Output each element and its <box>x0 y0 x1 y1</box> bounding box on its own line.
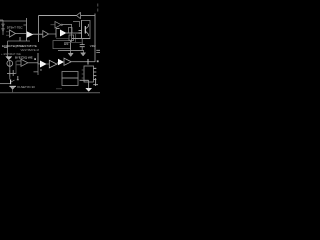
component bracket <box>56 29 60 38</box>
faint line y=42.5 <box>64 42 82 44</box>
box X1 <box>81 20 83 39</box>
pin dashes <box>79 31 82 34</box>
faint line y=38.7 <box>56 38 69 40</box>
resistor R1 <box>69 28 73 34</box>
ground G2 <box>86 88 92 91</box>
transformer T1 <box>62 72 78 79</box>
svg-text:VESTIBATE·M: VESTIBATE·M <box>21 48 40 52</box>
wire U2 out <box>33 33 43 35</box>
wire mid <box>66 32 82 34</box>
vertical x=38 <box>37 53 39 64</box>
resistor R2 <box>69 35 74 41</box>
capacitor C2 right edge <box>96 50 100 52</box>
IC box U6 <box>84 66 94 82</box>
svg-text:DTB+T·TEC: DTB+T·TEC <box>7 26 24 30</box>
oscillator circle <box>7 61 13 67</box>
junction cross <box>87 59 89 65</box>
ground G4 <box>83 51 85 53</box>
svg-text:BYEZ2IQ·WE: BYEZ2IQ·WE <box>15 56 33 60</box>
vertical x=75.5 <box>75 34 77 42</box>
diode pair D1 on left vertical <box>2 20 4 35</box>
corner wire <box>73 22 80 28</box>
mid bus <box>58 50 84 52</box>
svg-text:VR2: VR2 <box>90 44 96 48</box>
inverter U3 <box>55 22 61 29</box>
wire U1 out <box>16 33 28 35</box>
bottom bus <box>0 92 100 94</box>
faint top right marks <box>97 4 99 12</box>
wire right lower <box>95 78 97 86</box>
U5 block <box>53 41 71 49</box>
wire x=16 <box>15 61 17 74</box>
pins <box>94 68 97 79</box>
dot right <box>97 60 99 62</box>
diode to ground <box>9 85 16 87</box>
wire under U1 <box>8 40 31 42</box>
connector arrow J1 <box>77 12 81 18</box>
buffer U2 (filled) <box>27 32 33 37</box>
right bus vertical <box>94 14 96 63</box>
diode D2 (open triangle) <box>43 31 49 38</box>
op-amp U4 <box>21 59 28 66</box>
wire top-left bus <box>0 20 27 22</box>
wire bottom <box>80 79 89 81</box>
vertical x=71.5 <box>71 25 73 43</box>
diode D3 (open) <box>49 60 57 68</box>
ground G1 <box>6 57 12 60</box>
wire to right <box>71 61 95 63</box>
wire <box>9 66 11 70</box>
arrow A2 (filled) <box>38 63 40 65</box>
wire left stub <box>0 19 3 21</box>
dot <box>34 58 36 60</box>
op-amp U1 <box>10 30 16 37</box>
capacitor C1 <box>81 39 83 45</box>
vertical wire x=38.5 upper <box>38 16 40 43</box>
crystal Y1 <box>7 70 16 77</box>
wire <box>49 33 56 35</box>
transistor Q1 in box <box>84 26 86 34</box>
arrow A3 (filled) <box>57 62 58 64</box>
ground G3 <box>70 51 72 54</box>
wire x=17.8 <box>17 76 19 80</box>
arrow A1 (filled) <box>60 30 66 36</box>
vertical wire at x=26.5 <box>26 18 28 41</box>
node tick <box>24 24 27 26</box>
dot 2 <box>40 69 42 71</box>
transistor Q2 <box>10 80 12 85</box>
faint line <box>56 88 62 90</box>
svg-text:EC04CTEQBT2: EC04CTEQBT2 <box>2 44 22 48</box>
wire to right bus <box>81 15 95 17</box>
wire top bus <box>39 15 77 17</box>
svg-text:XI-NETIXI·30: XI-NETIXI·30 <box>17 85 35 89</box>
diode D4 (open) <box>64 58 71 65</box>
